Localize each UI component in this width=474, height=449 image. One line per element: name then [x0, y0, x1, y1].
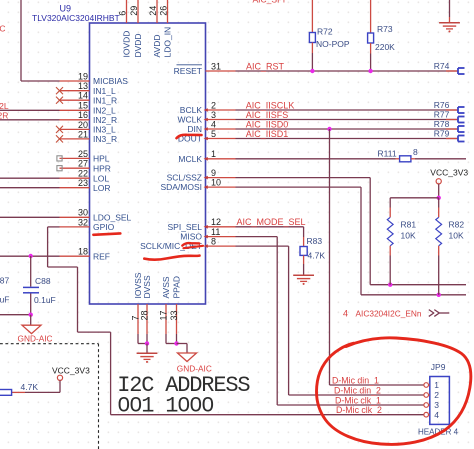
svg-text:AIC_IISD0: AIC_IISD0 — [246, 119, 289, 129]
svg-text:AIC_IISFS: AIC_IISFS — [246, 110, 289, 120]
wire LOR — [0, 187, 60, 189]
wire SDA/MOSI — [236, 186, 362, 188]
svg-text:R74: R74 — [434, 61, 450, 71]
svg-text:IN3_R: IN3_R — [93, 134, 117, 144]
resistor R72 — [311, 0, 313, 33]
node R72 junction — [310, 69, 314, 73]
hand-drawn underline SCLK/MIC_DET — [144, 256, 199, 260]
svg-text:0.1uF: 0.1uF — [34, 295, 56, 305]
svg-text:DIN: DIN — [187, 124, 202, 134]
svg-text:GND-AIC: GND-AIC — [177, 363, 212, 373]
ground top right — [449, 0, 451, 17]
pin 21 IN3_R — [60, 138, 90, 140]
pin 1 MCLK — [206, 158, 236, 160]
svg-text:LOR: LOR — [93, 183, 110, 193]
resistor R111 — [396, 158, 400, 160]
pin 29 DVDD — [137, 0, 139, 23]
svg-text:5: 5 — [211, 129, 216, 139]
hand-drawn underline MISO — [182, 243, 199, 246]
node R81 bottom junction — [388, 283, 392, 287]
node AIC_IISD0 junction — [327, 127, 331, 131]
wire VCC to 4.7K resistor — [59, 380, 61, 392]
node R73 junction — [368, 69, 372, 73]
pin 26 LDO_IN — [167, 0, 169, 23]
pin 15 IN2_L — [60, 109, 90, 111]
wire AIC_RST — [236, 70, 458, 72]
svg-text:R83: R83 — [307, 236, 323, 246]
pin 22 LOL — [60, 177, 90, 179]
svg-text:13: 13 — [78, 81, 88, 91]
svg-text:SPI_SEL: SPI_SEL — [168, 222, 203, 232]
node R82 bottom junction — [437, 293, 441, 297]
wire VCC to R81 — [390, 197, 439, 199]
svg-text:IN1_R: IN1_R — [93, 95, 117, 105]
svg-text:AIC_MODE_SEL: AIC_MODE_SEL — [237, 217, 306, 227]
svg-text:GND-AIC: GND-AIC — [18, 333, 53, 343]
pin 3 JP9 — [424, 403, 429, 408]
svg-text:29: 29 — [129, 6, 139, 16]
svg-text:10uF: 10uF — [0, 294, 10, 304]
svg-text:AIC_IN2L: AIC_IN2L — [0, 101, 9, 111]
text 001 1000 zero dot covers — [122, 402, 126, 407]
pin 10 SDA/MOSI — [206, 186, 236, 188]
pin 31 RESET — [206, 70, 236, 72]
unconnected stub square pin 25 — [57, 156, 62, 161]
svg-text:BCLK: BCLK — [180, 105, 203, 115]
no-connect X pin 13 — [56, 87, 63, 94]
svg-text:10K: 10K — [401, 231, 416, 241]
svg-text:33: 33 — [169, 310, 179, 320]
svg-text:8: 8 — [413, 147, 418, 157]
wire AIC_IN2R — [0, 119, 60, 121]
svg-text:AIC_IISCLK: AIC_IISCLK — [246, 100, 295, 110]
svg-text:R78: R78 — [434, 119, 450, 129]
resistor R73 — [370, 0, 372, 33]
pin 28 DVSS — [146, 304, 148, 334]
svg-text:27: 27 — [78, 159, 88, 169]
ground GND-AIC under AVSS PPAD — [165, 334, 167, 344]
svg-text:1: 1 — [434, 380, 439, 390]
no-connect X pin 20 — [56, 126, 63, 133]
svg-text:PPAD: PPAD — [172, 276, 182, 299]
svg-text:U9: U9 — [60, 4, 72, 14]
hand-drawn underline DIN — [177, 135, 202, 138]
svg-text:REF: REF — [93, 251, 110, 261]
resistor 4.7K bottom left — [12, 391, 25, 393]
svg-text:30: 30 — [78, 208, 88, 218]
ground GND-AIC under C88 — [30, 315, 32, 326]
svg-text:MICBIAS: MICBIAS — [93, 76, 128, 86]
svg-text:16: 16 — [78, 110, 88, 120]
resistor R83 — [303, 237, 305, 247]
svg-text:25: 25 — [78, 149, 88, 159]
pin 32 GPIO — [60, 226, 90, 228]
pin 9 SCL/SSZ — [206, 177, 236, 179]
svg-text:IN2_L: IN2_L — [93, 105, 116, 115]
wire AIC_MODE_SEL — [236, 226, 304, 228]
svg-text:8: 8 — [211, 237, 216, 247]
svg-text:VCC_3V3: VCC_3V3 — [52, 365, 90, 375]
svg-text:IN3_L: IN3_L — [93, 125, 116, 135]
svg-text:23: 23 — [78, 178, 88, 188]
svg-text:JP9: JP9 — [431, 362, 446, 372]
svg-text:IN2_R: IN2_R — [93, 115, 117, 125]
ground under R83 — [293, 274, 314, 276]
svg-text:26: 26 — [159, 6, 169, 16]
wire MCLK — [236, 158, 396, 160]
svg-text:18: 18 — [78, 247, 88, 257]
pin 2 BCLK — [206, 109, 236, 111]
svg-text:R72: R72 — [317, 27, 333, 37]
pin 13 IN1_L — [60, 90, 90, 92]
svg-text:R76: R76 — [434, 100, 450, 110]
svg-text:DVDD: DVDD — [133, 33, 143, 57]
svg-text:21: 21 — [78, 129, 88, 139]
svg-text:D-Mic din_1: D-Mic din_1 — [332, 375, 379, 385]
svg-text:9: 9 — [211, 168, 216, 178]
wire LDO_SEL — [0, 216, 60, 218]
pin 30 LDO_SEL — [60, 216, 90, 218]
svg-text:MISO: MISO — [180, 232, 202, 242]
svg-text:20: 20 — [78, 120, 88, 130]
svg-text:AIC3204I2C_ENn: AIC3204I2C_ENn — [356, 308, 422, 318]
svg-text:DVSS: DVSS — [142, 275, 152, 298]
wire REF — [0, 255, 60, 257]
svg-text:R73: R73 — [377, 24, 393, 34]
svg-text:WCLK: WCLK — [177, 115, 202, 125]
pin 27 HPR — [60, 167, 90, 169]
pin 6 IOVDD — [126, 0, 128, 23]
pin 25 HPL — [60, 157, 90, 159]
pin 12 SPI_SEL — [206, 226, 236, 228]
svg-text:AIC_RST: AIC_RST — [246, 62, 285, 72]
wire AIC_IISFS — [236, 119, 458, 121]
pin 5 DOUT — [206, 138, 236, 140]
hand-drawn strike DET — [184, 246, 204, 248]
svg-text:17: 17 — [159, 310, 169, 320]
svg-text:4: 4 — [211, 119, 216, 129]
pin 23 LOR — [60, 187, 90, 189]
svg-text:11: 11 — [211, 227, 220, 237]
pin 33 PPAD — [176, 304, 178, 334]
pin 2 JP9 — [424, 393, 429, 398]
svg-text:NO-POP: NO-POP — [316, 39, 350, 49]
pin 3 WCLK — [206, 119, 236, 121]
svg-text:C88: C88 — [35, 276, 51, 286]
svg-text:SDA/MOSI: SDA/MOSI — [160, 182, 202, 192]
svg-text:3: 3 — [434, 400, 439, 410]
node C88 bottom junction — [29, 313, 33, 317]
svg-text:IOVDD: IOVDD — [122, 31, 132, 58]
wire MICBIAS from left edge — [20, 0, 22, 81]
wire LOL — [0, 177, 60, 179]
svg-text:10K: 10K — [449, 231, 464, 241]
svg-text:D-Mic clk_2: D-Mic clk_2 — [336, 405, 382, 415]
svg-text:19: 19 — [78, 71, 88, 81]
op-amp U9 TLV320AIC3204IRHBT body — [90, 23, 206, 304]
svg-text:AVSS: AVSS — [161, 276, 171, 298]
svg-text:4: 4 — [343, 308, 348, 318]
svg-text:R77: R77 — [434, 110, 450, 120]
unconnected stub square pin 27 — [57, 166, 62, 171]
svg-text:1: 1 — [211, 149, 216, 159]
svg-text:4.7K: 4.7K — [21, 382, 39, 392]
hand-drawn underline GPIO — [93, 233, 120, 234]
pin 20 IN3_L — [60, 128, 90, 130]
pin 24 AVDD — [156, 0, 158, 23]
pin 11 MISO — [206, 236, 236, 238]
svg-text:TLV320AIC3204IRHBT: TLV320AIC3204IRHBT — [32, 13, 120, 23]
svg-text:SCL/SSZ: SCL/SSZ — [167, 173, 202, 183]
wire GPIO to D-Mic clk_2 — [48, 226, 60, 228]
pin 7 IOVSS — [137, 304, 139, 334]
pin 17 AVSS — [165, 304, 167, 334]
ground IOVSS DVSS — [137, 334, 139, 344]
svg-text:R79: R79 — [434, 129, 450, 139]
capacitor C88 — [30, 256, 32, 287]
svg-text:R82: R82 — [449, 220, 465, 230]
dashed boundary box — [0, 343, 99, 345]
pin 4 DIN — [206, 128, 236, 130]
svg-text:4.7K: 4.7K — [308, 250, 326, 260]
pin 8 SCLK/MIC_DET — [206, 245, 236, 247]
wire AIC_IN2L — [0, 109, 60, 111]
svg-text:10: 10 — [211, 178, 221, 188]
svg-text:D-Mic din_2: D-Mic din_2 — [334, 385, 381, 395]
svg-text:32: 32 — [78, 217, 88, 227]
svg-text:AIC_SPI: AIC_SPI — [253, 0, 286, 5]
svg-text:HPR: HPR — [93, 163, 111, 173]
svg-text:R81: R81 — [401, 220, 417, 230]
svg-text:AVDD: AVDD — [152, 35, 162, 58]
wire MCLK right of R111 — [415, 158, 466, 160]
svg-text:C87: C87 — [0, 276, 9, 286]
wire SCL/SSZ — [236, 177, 371, 179]
svg-text:22: 22 — [78, 169, 88, 179]
svg-text:GPIO: GPIO — [93, 222, 115, 232]
svg-text:AIC_IISD1: AIC_IISD1 — [246, 129, 289, 139]
pin 14 IN1_R — [60, 99, 90, 101]
svg-text:LOL: LOL — [93, 173, 109, 183]
svg-text:2: 2 — [434, 390, 439, 400]
svg-text:28: 28 — [140, 310, 150, 320]
no-connect X pin 21 — [56, 135, 63, 142]
wire AIC_IISD1 — [236, 138, 458, 140]
svg-text:VCC_3V3: VCC_3V3 — [430, 167, 468, 177]
svg-text:001 1000: 001 1000 — [117, 393, 213, 418]
wire AIC_IISD0 to D-Mic din_1 — [329, 129, 331, 385]
svg-text:14: 14 — [78, 91, 88, 101]
sheet connector chevrons — [429, 310, 434, 317]
svg-text:6: 6 — [118, 11, 128, 16]
resistor R81 — [389, 198, 391, 208]
pin 1 JP9 — [424, 383, 429, 388]
svg-text:3: 3 — [211, 110, 216, 120]
svg-text:MCLK: MCLK — [178, 154, 202, 164]
svg-text:LDO_SEL: LDO_SEL — [93, 212, 132, 222]
svg-text:D-Mic clk_1: D-Mic clk_1 — [335, 395, 381, 405]
svg-text:IN1_L: IN1_L — [93, 86, 116, 96]
wire AIC_IISCLK — [236, 109, 458, 111]
wire C87 to C88 bottom — [0, 314, 31, 316]
svg-text:24: 24 — [148, 6, 158, 16]
svg-text:15: 15 — [78, 101, 88, 111]
node VCC_3V3 junction — [437, 196, 441, 200]
wire SCLK/MIC_DET to D-Mic din_2 — [236, 245, 289, 247]
pin 4 JP9 — [424, 412, 429, 417]
svg-text:31: 31 — [211, 61, 221, 71]
svg-text:220K: 220K — [375, 42, 395, 52]
hand-drawn circle around JP9 — [316, 338, 470, 445]
wire AIC_IISD0 — [236, 128, 458, 130]
svg-text:12: 12 — [211, 217, 221, 227]
resistor R82 — [438, 198, 440, 208]
svg-text:RESET: RESET — [174, 66, 202, 76]
svg-text:R111: R111 — [378, 148, 397, 158]
node REF junction — [29, 254, 33, 258]
svg-text:4: 4 — [434, 410, 439, 420]
svg-text:C: C — [0, 24, 6, 34]
pin 18 REF — [60, 255, 90, 257]
pin 19 MICBIAS — [60, 80, 90, 82]
svg-text:2: 2 — [211, 100, 216, 110]
svg-text:AIC_IN2R: AIC_IN2R — [0, 110, 8, 120]
svg-text:HPL: HPL — [93, 154, 110, 164]
no-connect X pin 14 — [56, 97, 63, 104]
pin 16 IN2_R — [60, 119, 90, 121]
svg-text:LDO_IN: LDO_IN — [163, 27, 173, 58]
wire MISO to D-Mic clk_1 — [236, 236, 278, 238]
